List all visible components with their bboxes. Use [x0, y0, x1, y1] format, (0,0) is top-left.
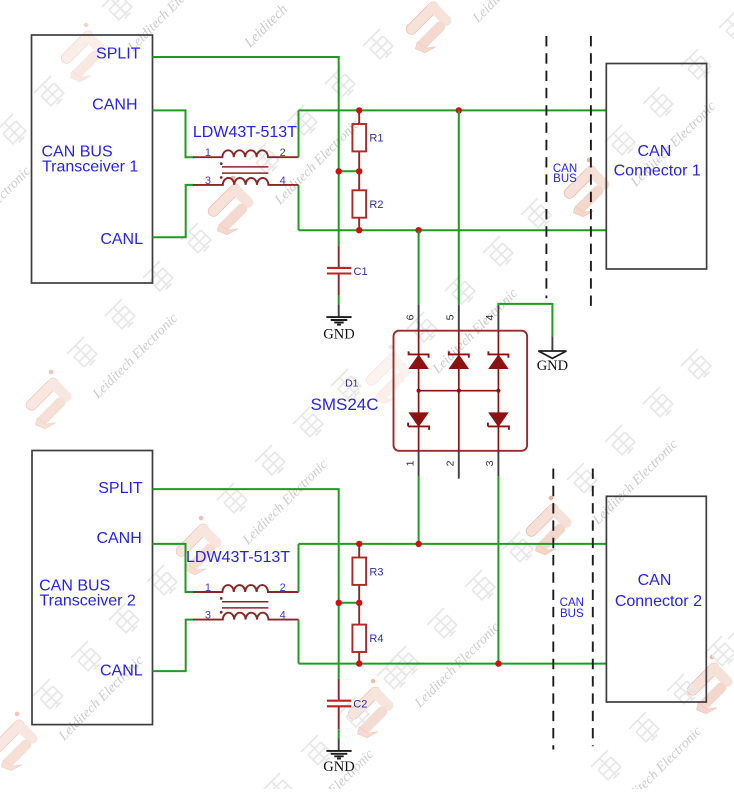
svg-text:R4: R4	[369, 633, 383, 645]
svg-text:LDW43T-513T: LDW43T-513T	[186, 549, 290, 566]
wire SPLIT net bottom	[153, 489, 339, 679]
node CANH2-pin1 junction	[415, 541, 421, 547]
svg-text:SPLIT: SPLIT	[96, 46, 141, 63]
svg-text:1: 1	[404, 460, 416, 466]
wire C2 to ground	[338, 729, 340, 738]
svg-text:4: 4	[484, 314, 496, 320]
CAN BUS dashed line right top	[590, 36, 592, 312]
svg-text:Transceiver 1: Transceiver 1	[42, 159, 138, 176]
svg-text:1: 1	[205, 147, 211, 159]
resistor R4 leads	[358, 603, 360, 664]
label CAN BUS top	[553, 163, 577, 185]
resistor R4	[352, 625, 366, 652]
svg-text:C1: C1	[354, 266, 368, 278]
capacitor C1 leads	[338, 246, 340, 267]
svg-text:R3: R3	[369, 567, 383, 579]
svg-text:SPLIT: SPLIT	[98, 480, 143, 497]
wire choke2 pin4 to CANL2 bus	[298, 620, 300, 664]
ground	[326, 317, 351, 325]
svg-text:GND: GND	[323, 759, 354, 775]
pin stubs D1 top	[419, 305, 499, 331]
svg-text:4: 4	[280, 610, 286, 622]
node CANL2-pin3 junction	[495, 660, 501, 666]
wire CANH2 bus	[299, 543, 608, 545]
wire D1 pin4 to ground	[498, 304, 552, 337]
svg-text:CAN: CAN	[638, 572, 672, 589]
svg-text:CANL: CANL	[100, 231, 143, 248]
resistor R2	[352, 190, 366, 217]
transformer core	[222, 602, 268, 608]
wire CANH2 from transceiver to choke pin1	[153, 544, 195, 592]
node CANH-R1 junction	[356, 107, 362, 113]
svg-text:R2: R2	[369, 199, 383, 211]
svg-text:3: 3	[205, 175, 211, 187]
svg-text:Connector 1: Connector 1	[614, 163, 701, 180]
CAN BUS Transceiver 1 box U1	[32, 35, 153, 283]
polarity dot pin3	[220, 611, 223, 614]
wire C1 to ground	[338, 296, 340, 304]
transformer core	[222, 167, 268, 173]
polarity dot pin1	[220, 597, 223, 600]
svg-text:C2: C2	[353, 699, 367, 711]
choke L2 LDW43T-513T	[193, 582, 299, 622]
CAN Connector 2 box J2	[606, 496, 706, 702]
CAN Connector 1 box J1	[606, 64, 706, 270]
svg-text:R1: R1	[369, 132, 383, 144]
svg-text:3: 3	[205, 610, 211, 622]
wire CANH from transceiver to choke pin1	[153, 110, 195, 157]
wire CANH bus top	[299, 109, 608, 111]
wire CANL from transceiver to choke pin3	[153, 185, 195, 237]
wire D1 pin3 to CANL bottom	[497, 476, 499, 663]
wire D1 pin5 to CANH	[458, 110, 460, 304]
CAN BUS dashed line left bottom	[552, 469, 554, 750]
wire D1 pin1 to CANH bottom	[418, 476, 420, 544]
svg-text:LDW43T-513T: LDW43T-513T	[193, 124, 297, 141]
resistor R1 leads	[358, 110, 360, 171]
svg-text:4: 4	[280, 175, 286, 187]
capacitor C1	[327, 268, 351, 274]
svg-text:3: 3	[484, 460, 496, 466]
wire SPLIT to divider midpoint	[339, 170, 360, 172]
node CANH2-R3 junction	[356, 541, 362, 547]
svg-text:Connector 2: Connector 2	[615, 593, 702, 610]
resistor R3 leads	[358, 544, 360, 603]
svg-text:BUS: BUS	[553, 173, 577, 185]
inductor winding top	[193, 585, 299, 592]
capacitor C2	[327, 701, 351, 707]
wire CANL2 bus	[299, 663, 608, 665]
resistor R1	[352, 124, 366, 151]
inductor winding bottom	[193, 613, 299, 620]
svg-text:2: 2	[445, 460, 457, 466]
label CAN BUS bottom	[560, 597, 584, 620]
wire choke2 pin2 to CANH2 bus	[298, 544, 300, 592]
TVS array D1 SMS24C	[394, 331, 528, 451]
pin stubs D1 bottom	[419, 451, 499, 479]
node R3-R4 midpoint junction	[356, 600, 362, 606]
node CANL-R2 junction	[356, 227, 362, 233]
node R1-R2 midpoint junction	[356, 168, 362, 174]
polarity dot pin1	[220, 162, 223, 165]
svg-text:BUS: BUS	[560, 608, 584, 620]
inductor winding bottom	[193, 178, 299, 185]
svg-text:6: 6	[404, 314, 416, 320]
wire SPLIT net top	[153, 57, 339, 246]
capacitor C2 leads	[338, 679, 340, 700]
signal ground symbol	[537, 337, 568, 374]
CAN BUS dashed line left top	[545, 36, 547, 298]
svg-text:GND: GND	[537, 358, 568, 374]
svg-text:GND: GND	[323, 327, 354, 343]
choke L1 LDW43T-513T	[193, 147, 299, 187]
polarity dot pin3	[220, 176, 223, 179]
wire CANL bus top	[299, 229, 608, 231]
wire choke pin2 to CANH bus	[298, 110, 300, 157]
svg-text:2: 2	[280, 147, 286, 159]
CAN BUS Transceiver 2 box U2	[32, 451, 153, 725]
svg-text:SMS24C: SMS24C	[311, 395, 379, 414]
wire choke pin4 to CANL bus	[298, 185, 300, 230]
node CANH-pin5 junction	[456, 107, 462, 113]
wire CANL2 from transceiver to choke pin3	[153, 620, 195, 672]
svg-text:1: 1	[205, 582, 211, 594]
CAN BUS dashed line right bottom	[592, 469, 594, 747]
svg-text:D1: D1	[345, 377, 359, 389]
node CANL-pin6 junction	[415, 227, 421, 233]
svg-text:5: 5	[445, 314, 457, 320]
svg-text:CAN: CAN	[638, 143, 672, 160]
node SPLIT2-midpoint junction	[336, 600, 342, 606]
svg-text:CANL: CANL	[100, 663, 143, 680]
node CANL2-R4 junction	[356, 660, 362, 666]
resistor R3	[352, 558, 366, 585]
wire SPLIT2 to divider midpoint	[339, 602, 360, 604]
node SPLIT-midpoint junction	[336, 168, 342, 174]
resistor R2 leads	[358, 171, 360, 230]
svg-text:Transceiver 2: Transceiver 2	[40, 592, 136, 609]
svg-text:CANH: CANH	[96, 530, 141, 547]
svg-text:2: 2	[280, 582, 286, 594]
ground	[326, 751, 351, 759]
svg-text:CANH: CANH	[92, 97, 137, 114]
wire D1 pin6 to CANL	[418, 230, 420, 304]
inductor winding top	[193, 150, 299, 157]
